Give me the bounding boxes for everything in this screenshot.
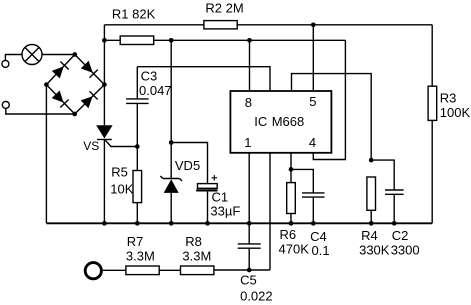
wire pin2 column [269,153,271,270]
wire C2 bottom [393,194,395,223]
wire R4 bottom [370,210,372,223]
diode bridge top-right [81,61,98,78]
resistor R3 [428,86,437,120]
svg-text:R4: R4 [361,228,378,243]
resistor R4 [367,177,376,210]
wire R7 to R8 [159,269,180,271]
wire upper terminal stub [5,55,22,61]
node bridge top [72,52,77,57]
wire C3 branch horizontal [137,67,270,91]
resistor R5 [133,171,142,203]
wire upper bridge row [292,74,372,161]
wire R6 column [290,153,292,183]
node bridge right [102,82,107,87]
svg-text:R8: R8 [185,234,202,249]
wire C3 column from R1 row [170,40,172,142]
wire VS gate [105,140,137,146]
node bottom R6 [289,221,294,226]
node bottom R5 [135,221,140,226]
wire pin1 column [248,153,250,244]
wire R1 row right [154,39,346,41]
terminal lower [2,101,9,108]
svg-text:C5: C5 [240,273,257,288]
svg-text:330K: 330K [359,242,390,257]
node gate junction [135,144,140,149]
wire VS cathode down [103,140,105,224]
resistor R2 [204,21,237,29]
resistor R6 [287,183,296,214]
node junction pin8 column [247,38,252,43]
node bottom C4 [311,221,316,226]
bridge edge bottom-right [75,85,105,114]
wire C1 bottom [207,190,209,223]
resistor R7 [126,266,159,275]
wire bottom bus [46,222,432,224]
svg-text:R5: R5 [111,164,128,179]
node bottom C1 [205,221,210,226]
IC U1 M668 [230,91,331,153]
capacitor C5 [238,243,261,245]
wire R1 descender to pin4 [313,40,345,159]
node junction R1 left [102,38,107,43]
node bottom VD5 [169,221,174,226]
wire bridge right to VS [103,85,105,126]
svg-text:C4: C4 [310,229,327,244]
svg-text:R3: R3 [440,90,457,105]
bridge edge top-left [46,55,74,85]
svg-text:R1 82K: R1 82K [112,6,156,21]
wire R4 C2 branch [371,160,394,190]
wire bridge left corner down [45,85,47,224]
diode bridge bottom-right [80,91,97,108]
svg-text:3300: 3300 [391,242,420,257]
bridge edge bottom-left [46,85,74,114]
svg-text:8: 8 [245,95,252,110]
node VD5 branch junction [169,140,174,145]
zener VD5 [163,178,180,180]
wire R6 bottom [290,214,292,224]
svg-text:VD5: VD5 [175,158,200,173]
svg-text:10K: 10K [110,181,133,196]
node bottom VS [102,221,107,226]
lamp [22,45,42,65]
node junction C3 column [169,38,174,43]
svg-text:4: 4 [309,135,316,150]
svg-text:3.3M: 3.3M [126,249,155,264]
wire C3 top stub [136,67,138,99]
wire R6 C4 branch [291,169,313,193]
node junction pin5 top [311,22,316,27]
wire VD5 bottom [170,193,172,223]
svg-text:M668: M668 [272,114,305,129]
diode bridge top-left [52,61,69,78]
svg-text:C2: C2 [392,228,409,243]
label + C1 [212,177,218,179]
capacitor C3 [126,98,149,100]
node bottom R4 [369,221,374,226]
wire R8 to pin2 column [214,269,270,271]
node C5 R8 junction [247,268,252,273]
svg-text:33µF: 33µF [210,203,240,218]
svg-text:R7: R7 [127,234,144,249]
svg-text:100K: 100K [440,105,471,120]
wire top bus right [237,24,432,26]
node bridge left [44,82,49,87]
wire VD5 column [170,143,172,179]
svg-text:VS: VS [83,139,99,153]
svg-text:0.1: 0.1 [312,243,330,258]
node bottom C2 [392,221,397,226]
node R4 top [369,158,374,163]
svg-text:C3: C3 [141,69,158,84]
capacitor C2 [385,189,404,191]
bridge edge top-right [75,55,105,85]
svg-text:3.3M: 3.3M [182,249,211,264]
thyristor VS [96,125,112,138]
wire top bus [104,24,203,26]
wire left column top [103,25,105,85]
diode bridge bottom-left [51,90,68,107]
resistor R8 [181,266,214,275]
node bridge bottom [72,112,77,117]
svg-text:5: 5 [309,94,316,109]
wire probe to R7 [103,269,126,271]
svg-text:1: 1 [244,135,251,150]
svg-text:R6: R6 [280,227,297,242]
wire R1 row left [104,39,120,41]
resistor R1 [120,36,154,45]
node pin1 bottom bus [247,221,252,226]
wire lower terminal to bridge bottom [6,108,75,114]
svg-text:470K: 470K [279,241,310,256]
svg-text:R2 2M: R2 2M [205,0,243,15]
wire pin5 column [312,25,314,91]
terminal upper [2,60,9,67]
svg-text:0.047: 0.047 [139,83,172,98]
node R6 top [289,167,294,172]
svg-text:IC: IC [254,114,267,129]
wire R3 column bottom [431,120,433,223]
capacitor C4 [302,192,325,194]
wire pin8 column [249,40,251,91]
wire C4 bottom [312,197,314,223]
svg-text:0.022: 0.022 [240,288,273,303]
wire R5 bottom [136,203,138,224]
wire C1 branch [171,143,207,184]
wire C3 bottom to gate node [136,103,138,170]
wire lamp to bridge [42,54,75,56]
capacitor C1 polarized [198,184,218,189]
wire C5 bottom [248,248,250,270]
terminal probe [85,263,101,279]
wire R3 column top [431,25,433,86]
